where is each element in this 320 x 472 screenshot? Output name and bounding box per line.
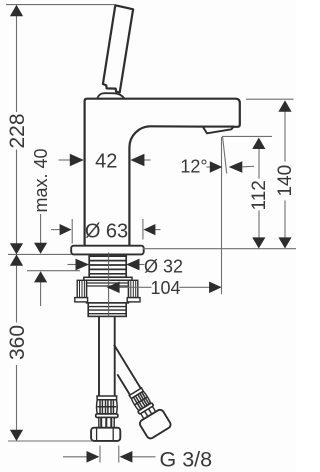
dia32 right tail [138,264,145,266]
svg-text:228: 228 [6,113,29,148]
svg-text:42: 42 [95,151,117,173]
svg-text:12°: 12° [180,157,207,177]
svg-text:Ø 32: Ø 32 [144,257,183,277]
cartridge dome on body top [97,93,125,99]
mounting nut center band [87,280,129,303]
42 dim right tail [144,159,151,161]
12deg right tail [243,165,255,168]
G38 dim left tail [63,456,88,458]
svg-text:112: 112 [249,180,270,210]
under-counter up arrow [34,271,47,282]
center axis line through hardware [108,253,110,317]
104 right arrow [209,282,222,294]
counter reference line right [143,248,296,250]
svg-text:140: 140 [275,165,296,197]
counter reference line left [8,253,72,255]
G38 right arrow [120,451,133,463]
G38 dim right tail [132,456,156,458]
straight hose crimp collar [97,396,117,400]
360 top arrow (bowtie lower) [10,254,23,265]
228 dimension line lower [16,150,18,245]
dia63 right extension line [142,219,144,240]
140 dimension line upper [284,112,286,162]
svg-text:360: 360 [6,325,29,360]
dia32 right arrow [126,259,140,271]
svg-text:max. 40: max. 40 [31,148,51,212]
360 dimension line upper [16,265,18,323]
straight hose connector nut G38 [91,428,120,441]
112 bottom arrow [252,237,265,248]
dia63 right tail [154,229,161,231]
G38 left extension line [99,446,101,463]
104 left arrow [107,282,120,294]
140 bottom arrow [278,237,291,248]
140 dimension line lower [284,201,286,239]
straight hose ferrule band [96,414,118,418]
dia32 left tail [68,264,77,266]
G38 left arrow [87,451,100,463]
washer under shank [84,277,132,280]
max40 dimension line [40,214,42,244]
diagonal hose ferrule band [138,403,154,415]
dia63 left arrow [60,224,72,235]
228 dimension line upper [16,15,18,112]
12deg right-pointing arrow [210,161,223,173]
mounting nut right ribbed tab [127,280,140,302]
104 dim line left segment [119,286,152,288]
svg-text:Ø 63: Ø 63 [85,221,128,243]
lever handle [103,5,133,92]
360 dimension line lower [16,365,18,431]
base plate [71,246,144,255]
diagonal hose group [97,341,172,440]
42 left arrow [70,154,84,167]
112 top arrow [252,138,265,150]
lower lock stack [88,303,126,317]
max40 down arrow [34,243,47,254]
diagonal hose ribbed neck [141,406,156,418]
dia63 right arrow [143,224,155,235]
140 top arrow [278,100,291,112]
outlet horizontal extension line [222,135,272,137]
straight hose ribbed neck [99,418,114,428]
diagonal hose connector nut [138,408,172,440]
diagonal hose crimp collar [129,388,143,399]
228 top arrow [10,5,23,16]
12deg left-pointing arrow [229,161,243,173]
straight hose tube [99,316,115,396]
outlet vertical extension line [221,137,223,294]
threaded shank [89,255,126,278]
360 bottom arrow [10,430,23,441]
42 dim left tail [59,159,71,161]
top extension line from lever top [6,4,115,6]
dia32 left arrow [76,259,90,271]
112 dimension line upper [258,149,260,179]
104 dim line right segment [179,286,210,288]
228 bottom arrow (bowtie upper) [10,243,23,254]
12deg slanted reference line [223,137,227,174]
bottom reference line [8,440,93,442]
svg-text:G 3/8: G 3/8 [160,448,213,472]
top right extension line [246,98,294,100]
G38 right extension line [118,446,120,463]
faucet body outline [85,99,240,246]
12deg left tail [207,166,211,168]
aerator outlet piece [203,127,234,134]
dia63 left extension line [71,219,73,244]
svg-text:104: 104 [150,278,180,298]
mounting nut left ribbed tab [75,280,88,302]
diagonal hose tube edges [114,345,141,389]
under-counter hanging line x40.6 [40,282,42,307]
diagonal hose braid section [131,391,151,411]
42 right arrow [130,154,144,167]
under-counter line y270.7 [27,270,80,272]
112 dimension line lower [258,210,260,238]
dia63 left tail [51,229,61,231]
straight hose braid section [97,400,118,414]
